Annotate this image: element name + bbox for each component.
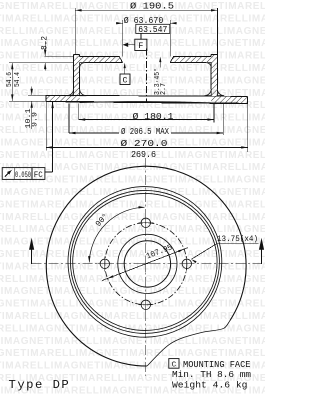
svg-text:Ø 206.5 MAX: Ø 206.5 MAX — [121, 126, 169, 137]
svg-text:MAGNETIMARELLIMAGNETIMARELLIMA: MAGNETIMARELLIMAGNETIMARELLIMAGNETIMAREL… — [0, 286, 265, 297]
break-out boundary curve — [147, 321, 230, 367]
svg-text:MOUNTING FACE: MOUNTING FACE — [183, 360, 251, 370]
mounting holes — [97, 256, 112, 271]
drum walls hatched — [74, 54, 218, 95]
datum F box — [123, 33, 147, 51]
svg-text:MAGNETIMARELLIMAGNETIMARELLIMA: MAGNETIMARELLIMAGNETIMARELLIMAGNETIMAREL… — [0, 63, 265, 74]
svg-text:9.9: 9.9 — [32, 112, 40, 127]
svg-text:63.547: 63.547 — [138, 25, 167, 35]
svg-text:Weight 4.6 kg: Weight 4.6 kg — [172, 381, 248, 391]
svg-text:MAGNETIMARELLIMAGNETIMARELLIMA: MAGNETIMARELLIMAGNETIMARELLIMAGNETIMAREL… — [0, 299, 265, 310]
svg-text:MAGNETIMARELLIMAGNETIMARELLIMA: MAGNETIMARELLIMAGNETIMARELLIMAGNETIMAREL… — [0, 348, 265, 359]
svg-text:C: C — [122, 76, 127, 86]
svg-text:Type DP: Type DP — [9, 378, 71, 392]
hub pilot circle — [118, 234, 177, 293]
svg-text:MAGNETIMARELLIMAGNETIMARELLIMA: MAGNETIMARELLIMAGNETIMARELLIMAGNETIMAREL… — [0, 51, 265, 62]
dimension 54.6/54.4 — [6, 63, 22, 102]
hole size note 13.75(x4) — [191, 234, 258, 263]
svg-text:FC: FC — [34, 172, 43, 180]
svg-text:13.75(x4): 13.75(x4) — [217, 234, 258, 244]
svg-text:MAGNETIMARELLIMAGNETIMARELLIMA: MAGNETIMARELLIMAGNETIMARELLIMAGNETIMAREL… — [0, 274, 265, 285]
centre bore circle — [124, 241, 170, 287]
svg-text:2.7: 2.7 — [160, 83, 168, 95]
svg-text:F: F — [138, 41, 143, 51]
cutting plane arrow right — [259, 238, 264, 264]
horizontal centreline / cutting plane — [32, 263, 262, 265]
dimension 8.2 — [9, 36, 73, 71]
svg-text:C: C — [172, 361, 177, 369]
mounting face note — [169, 359, 251, 391]
dimension D270.0 / 269.6 — [46, 101, 248, 160]
wall fillets — [67, 63, 224, 96]
svg-text:0.050: 0.050 — [15, 172, 31, 180]
dimension 10.1/9.9 — [9, 87, 46, 130]
svg-text:Ø 190.5: Ø 190.5 — [130, 1, 174, 12]
svg-text:269.6: 269.6 — [131, 149, 156, 160]
runout tolerance frame 0.050 FC — [2, 102, 54, 180]
hat flange hatched section — [80, 56, 212, 62]
svg-text:MAGNETIMARELLIMAGNETIMARELLIMA: MAGNETIMARELLIMAGNETIMARELLIMAGNETIMAREL… — [0, 75, 265, 86]
svg-text:MAGNETIMARELLIMAGNETIMARELLIMA: MAGNETIMARELLIMAGNETIMARELLIMAGNETIMAREL… — [0, 38, 265, 49]
svg-text:Ø 180.1: Ø 180.1 — [133, 111, 175, 122]
datum C box with leader — [120, 63, 130, 86]
dimension D180.1 — [79, 104, 214, 123]
90 degree arc dimension — [88, 206, 145, 263]
svg-text:MAGNETIMARELLIMAGNETIMARELLIMA: MAGNETIMARELLIMAGNETIMARELLIMAGNETIMAREL… — [0, 212, 265, 223]
svg-text:MAGNETIMARELLIMAGNETIMARELLIMA: MAGNETIMARELLIMAGNETIMARELLIMAGNETIMAREL… — [0, 261, 265, 272]
friction ring hatched — [46, 95, 247, 103]
svg-text:MAGNETIMARELLIMAGNETIMARELLIMA: MAGNETIMARELLIMAGNETIMARELLIMAGNETIMAREL… — [0, 336, 265, 347]
bolt circle (dash-dot) — [105, 223, 187, 305]
cutting plane arrow left — [29, 238, 34, 264]
dimension D63.670/63.547 — [116, 16, 177, 56]
svg-text:MAGNETIMARELLIMAGNETIMARELLIMA: MAGNETIMARELLIMAGNETIMARELLIMAGNETIMAREL… — [0, 26, 265, 37]
section centerline — [145, 49, 147, 102]
drum edge circles — [73, 193, 217, 330]
dimension D206.5 MAX — [69, 104, 223, 138]
bolt circle diameter 107.95 — [102, 243, 188, 280]
svg-text:MAGNETIMARELLIMAGNETIMARELLIMA: MAGNETIMARELLIMAGNETIMARELLIMAGNETIMAREL… — [0, 311, 265, 322]
svg-text:MAGNETIMARELLIMAGNETIMARELLIMA: MAGNETIMARELLIMAGNETIMARELLIMAGNETIMAREL… — [0, 249, 265, 260]
vertical centreline — [145, 158, 147, 376]
svg-text:8.2: 8.2 — [41, 36, 49, 50]
front view outer circle with break-out gap — [46, 166, 246, 366]
chamfer note 3.3x45 / 2.7 — [153, 57, 168, 95]
centre cross — [138, 256, 154, 272]
dimension D190.5 — [75, 1, 217, 55]
svg-text:54.4: 54.4 — [14, 72, 22, 87]
section outline — [46, 54, 247, 103]
svg-text:Min. TH 8.6 mm: Min. TH 8.6 mm — [172, 370, 251, 380]
svg-text:Ø 270.0: Ø 270.0 — [121, 138, 168, 149]
svg-text:MAGNETIMARELLIMAGNETIMARELLIMA: MAGNETIMARELLIMAGNETIMARELLIMAGNETIMAREL… — [0, 187, 265, 198]
